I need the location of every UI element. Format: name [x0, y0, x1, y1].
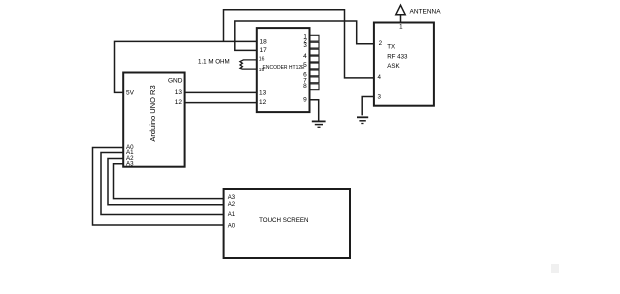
- svg-text:TX: TX: [387, 44, 395, 51]
- svg-text:8: 8: [303, 83, 307, 90]
- svg-text:TOUCH SCREEN: TOUCH SCREEN: [259, 217, 308, 224]
- svg-text:RF 433: RF 433: [387, 54, 408, 61]
- svg-text:A3: A3: [228, 195, 236, 201]
- svg-text:GND: GND: [168, 78, 183, 85]
- svg-text:16: 16: [259, 57, 265, 63]
- svg-text:A1: A1: [228, 212, 236, 218]
- svg-text:17: 17: [260, 47, 268, 54]
- svg-text:13: 13: [175, 89, 183, 96]
- svg-text:1: 1: [399, 24, 403, 31]
- svg-text:12: 12: [259, 99, 267, 106]
- svg-text:A2: A2: [228, 202, 236, 208]
- svg-text:9: 9: [303, 97, 307, 104]
- svg-text:1.1 M OHM: 1.1 M OHM: [198, 59, 230, 66]
- svg-text:3: 3: [377, 94, 381, 101]
- svg-text:12: 12: [175, 99, 183, 106]
- svg-text:Arduino UNO R3: Arduino UNO R3: [148, 85, 157, 141]
- svg-text:2: 2: [379, 40, 383, 47]
- svg-text:3: 3: [303, 42, 307, 49]
- svg-text:5V: 5V: [126, 89, 135, 96]
- svg-text:ENCODER HT12E: ENCODER HT12E: [263, 65, 306, 71]
- svg-text:4: 4: [377, 74, 381, 81]
- svg-text:18: 18: [260, 38, 268, 45]
- svg-text:ASK: ASK: [387, 63, 400, 70]
- svg-text:ANTENNA: ANTENNA: [410, 8, 442, 15]
- svg-text:13: 13: [259, 90, 267, 97]
- svg-text:4: 4: [303, 53, 307, 60]
- svg-text:A0: A0: [228, 223, 236, 229]
- svg-text:A3: A3: [126, 160, 134, 167]
